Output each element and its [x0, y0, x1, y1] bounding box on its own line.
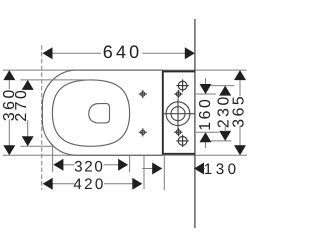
bowl outline [42, 70, 163, 155]
dimension 130 extension (cistern left edge extended) [163, 156, 165, 190]
svg-text:420: 420 [73, 176, 105, 193]
dimension 270 tick bottom [21, 145, 54, 147]
dimension 420 right arrow [132, 178, 142, 190]
dimension 130 left arrow [152, 163, 162, 175]
dimension 420 extension right [143, 156, 145, 189]
seat oval [52, 80, 129, 146]
dimension 320 left arrow [53, 159, 63, 171]
dimension 270 up arrow [22, 80, 34, 90]
svg-text:320: 320 [74, 158, 104, 175]
svg-text:160: 160 [197, 97, 214, 131]
svg-text:640: 640 [103, 42, 143, 62]
dimension 230 tick top [211, 85, 235, 87]
dimension 230 tick bottom [211, 140, 232, 142]
dimension 270 tick top [21, 79, 91, 81]
cistern supply hole lower [176, 135, 188, 147]
dimension 360 down arrow [3, 145, 15, 155]
dimension 320 line [63, 164, 120, 166]
dimension 320 extension right [129, 156, 131, 172]
dashed centre/front extension line [41, 45, 43, 189]
dimension 130 right tail [204, 168, 206, 170]
cistern supply hole upper [176, 79, 188, 91]
seat hinge hole upper [139, 90, 147, 98]
extension line bottom (360/365 lower reference) [3, 154, 247, 156]
dimension 360 line [8, 79, 10, 147]
dimension 130 right arrow [194, 163, 204, 175]
dimension 160 tick top [196, 93, 216, 95]
dimension 640 left arrow [43, 47, 53, 59]
seat hinge hole lower [139, 128, 147, 136]
extension line top (360/365 upper reference) [3, 69, 247, 71]
flush opening [89, 103, 110, 123]
svg-text:365: 365 [231, 94, 248, 128]
dimension 130 left arrow tail [142, 168, 153, 170]
cistern body [163, 71, 195, 153]
dimension 230 up arrow [219, 86, 231, 96]
svg-text:270: 270 [13, 88, 30, 122]
dimension 320 right arrow [118, 159, 128, 171]
cistern flush pipe circle [163, 99, 195, 130]
dimension 230 down arrow [219, 131, 231, 141]
wall line [194, 19, 196, 228]
dimension 160 upper arrow (pointing down) [200, 84, 212, 94]
dimension 640 right arrow [185, 47, 195, 59]
svg-text:130: 130 [204, 161, 240, 178]
dimension 365 down arrow [234, 145, 246, 155]
dimension 270 line [27, 89, 29, 137]
dimension 230 line [224, 127, 226, 132]
dimension 420 left arrow [43, 178, 53, 190]
dimension 160 lower arrow (pointing up) [200, 132, 212, 142]
cistern fixing hole lower small [174, 128, 182, 136]
dimension 360 up arrow [3, 70, 15, 80]
dimension 365 line [239, 79, 241, 146]
dimension 160 line tails [205, 78, 207, 148]
dimension 270 down arrow [22, 136, 34, 146]
cistern fixing hole upper small [174, 90, 182, 98]
dimension 640 line [51, 52, 195, 54]
dimension 320 extension left [52, 144, 54, 172]
dimension 420 line [52, 183, 133, 185]
dimension 160 tick bottom [196, 131, 219, 133]
dimension 365 up arrow [234, 70, 246, 80]
